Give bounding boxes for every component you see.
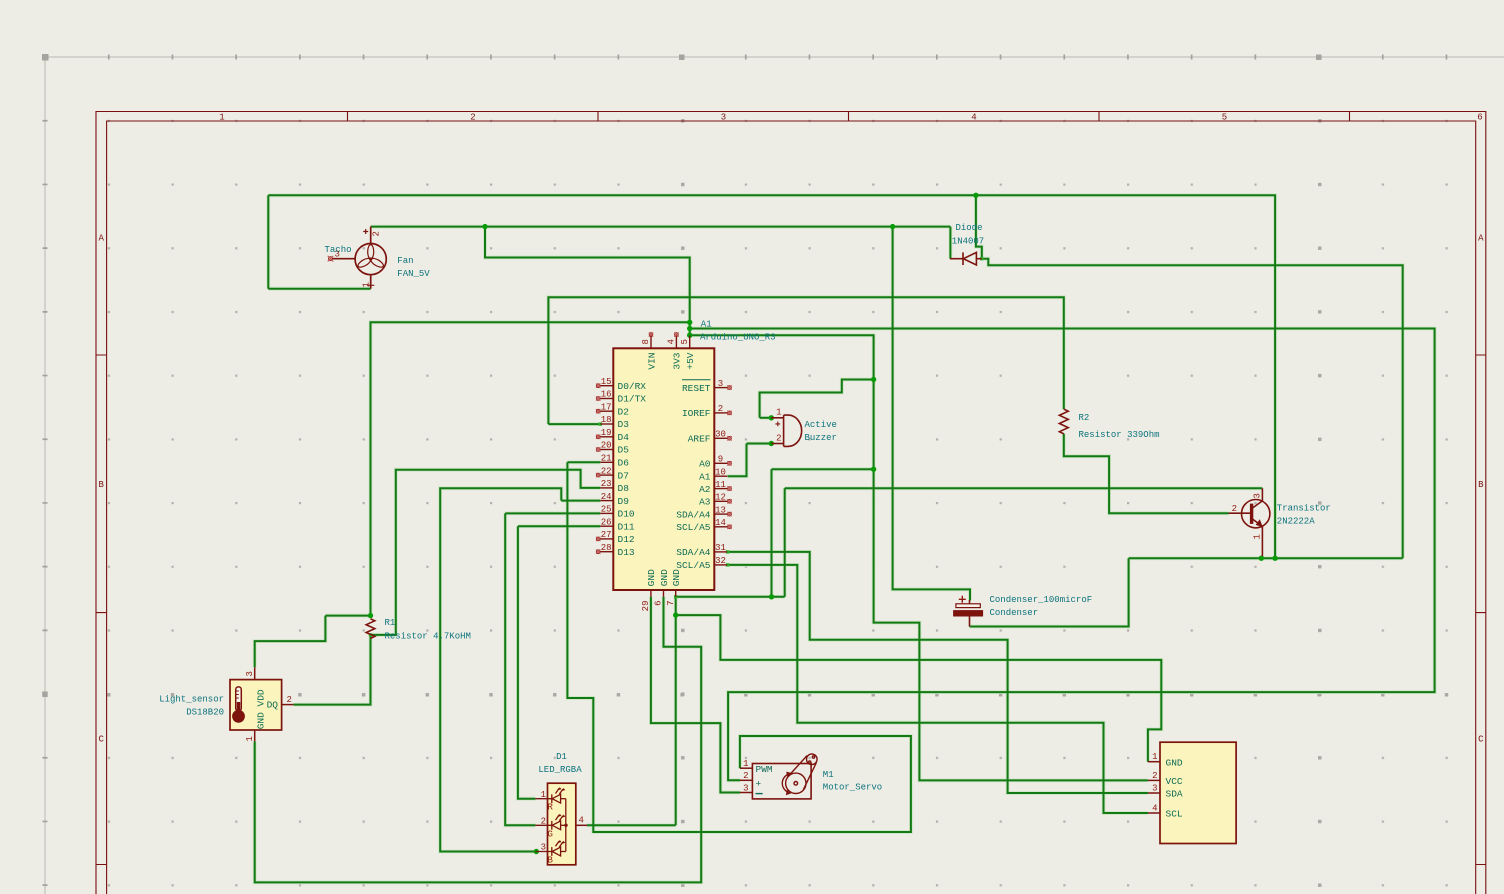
svg-text:27: 27 [601,530,612,540]
wire gnd link to value column [772,468,874,470]
wire D9 pin stub [561,500,600,502]
wire fan- bottom [268,288,370,290]
svg-text:1: 1 [1253,534,1263,539]
svg-text:13: 13 [715,505,726,515]
wire D11 to LED red [518,526,536,799]
resistor R1 [366,619,375,639]
svg-text:1: 1 [1152,752,1157,762]
svg-text:Transistor: Transistor [1277,504,1331,514]
svg-text:18: 18 [601,415,612,425]
svg-text:D9: D9 [618,496,630,507]
svg-text:SDA: SDA [1166,789,1183,800]
svg-text:+5V: +5V [685,352,696,369]
pin end squares [369,257,984,637]
svg-text:15: 15 [601,377,612,387]
diode 1N4007 D [950,252,982,265]
svg-text:+: + [756,779,762,790]
svg-text:Arduino_UNO_R3: Arduino_UNO_R3 [700,333,776,343]
unconnected pin markers [596,332,732,554]
svg-text:A: A [1478,234,1484,244]
svg-text:D8: D8 [618,483,630,494]
svg-text:2: 2 [1152,771,1157,781]
wire gnd link drop [771,469,773,597]
wire SCL/A5 pin32 to connector SCL [728,565,1148,813]
wire R1 bottom to D8 pin [371,470,601,635]
fan FAN_5V symbol [333,227,387,289]
svg-text:19: 19 [601,428,612,438]
svg-text:7: 7 [666,601,676,606]
svg-text:D0/RX: D0/RX [618,381,647,392]
servo horn [782,754,817,794]
svg-text:30: 30 [715,430,726,440]
svg-text:D1: D1 [556,752,567,762]
wire buzzer pin1 stub [760,417,772,419]
wire collector net riser [784,488,786,597]
svg-text:D5: D5 [618,445,630,456]
wire fan+ to diode cathode column [371,226,951,228]
svg-text:Diode: Diode [955,223,982,233]
svg-text:IOREF: IOREF [682,408,711,419]
wire buzzer pin1 loop to column [760,380,874,418]
svg-text:6: 6 [1477,113,1482,123]
svg-text:26: 26 [601,517,612,527]
svg-text:32: 32 [715,556,726,566]
svg-text:3: 3 [718,379,723,389]
LED_RGBA D1 [548,783,576,865]
svg-text:VDD: VDD [256,689,267,706]
svg-text:Fan: Fan [397,256,413,266]
capacitor Condenser_100microF [969,600,971,604]
wire D10 pin stub [505,512,600,514]
wire junction column to A1 +5V stack [485,227,690,336]
svg-text:A1: A1 [701,320,712,330]
wire value net to connector VCC [690,335,1148,780]
svg-text:D12: D12 [618,534,635,545]
wire SDA/A4 pin31 to connector SDA [728,552,1148,793]
svg-text:DS18B20: DS18B20 [186,708,224,718]
svg-text:25: 25 [601,505,612,515]
wire diode top jog [976,195,982,258]
svg-text:14: 14 [715,518,726,528]
svg-text:16: 16 [601,390,612,400]
fan blades [357,245,385,269]
svg-text:GND: GND [671,569,682,586]
svg-text:GND: GND [646,569,657,586]
svg-text:29: 29 [641,601,651,612]
svg-text:5: 5 [1222,113,1227,123]
svg-text:2: 2 [541,817,546,827]
svg-text:D10: D10 [618,509,635,520]
svg-text:4: 4 [667,339,677,344]
svg-text:1N4007: 1N4007 [952,237,984,247]
wire collector net rail [785,487,1263,489]
svg-text:3: 3 [743,783,748,793]
Arduino top pins VIN 3V3 +5V [651,336,690,349]
svg-text:RESET: RESET [682,383,711,394]
svg-text:LED_RGBA: LED_RGBA [538,765,582,775]
svg-text:31: 31 [715,543,726,553]
svg-text:Tacho: Tacho [325,245,352,255]
svg-text:D4: D4 [618,432,630,443]
svg-text:D2: D2 [618,406,630,417]
wire D6 pin stub [567,461,600,463]
wire D10 to LED green [505,513,535,825]
wire top rail y195 and right drop [268,195,1275,558]
wire diode anode out to far right drop [982,259,1403,559]
svg-text:4: 4 [1152,804,1157,814]
svg-text:2: 2 [287,695,292,705]
svg-text:2: 2 [776,434,781,444]
RESET overline [682,379,711,381]
wire R1 top stub left [325,615,370,617]
wire pin29 gnd to motor minus [651,597,740,793]
wire emitter rail y558 [1129,557,1403,559]
svg-text:10: 10 [715,467,726,477]
svg-text:2: 2 [470,113,475,123]
svg-text:12: 12 [715,493,726,503]
svg-text:G: G [548,829,553,839]
svg-text:PWM: PWM [756,764,773,775]
svg-text:3: 3 [1152,784,1157,794]
svg-text:11: 11 [715,480,726,490]
svg-text:Motor_Servo: Motor_Servo [823,783,882,793]
svg-text:A: A [98,234,104,244]
wire D6 to servo PWM loop [567,462,911,832]
svg-text:23: 23 [601,479,612,489]
wire D3 pin stub [548,423,600,425]
wire buzzer pin2 stub [747,443,772,445]
LED element G [535,815,565,830]
svg-text:SCL: SCL [1166,809,1183,820]
light sensor DS18B20 [230,680,282,730]
svg-text:Resistor 4.7KoHM: Resistor 4.7KoHM [385,632,471,642]
fan pin3 unconnected mark [329,257,333,261]
svg-text:A2: A2 [699,484,711,495]
svg-text:2: 2 [718,404,723,414]
svg-text:R2: R2 [1079,413,1090,423]
wire buzzer pin2 to A1 pin [728,444,747,477]
wire pin7 column to LED pin4 [587,597,676,826]
svg-text:1: 1 [541,790,546,800]
svg-text:24: 24 [601,492,612,502]
svg-text:17: 17 [601,402,612,412]
svg-text:1: 1 [743,759,748,769]
I2C connector J [1160,742,1236,843]
svg-text:FAN_5V: FAN_5V [397,269,430,279]
svg-text:2: 2 [372,231,382,236]
wire capacitor bottom link [970,558,1129,626]
wire GND bottom loop to pin6 [255,597,702,883]
wire sensor DQ to R1 bottom [293,635,370,705]
svg-text:2N2222A: 2N2222A [1277,517,1315,527]
svg-text:B: B [548,856,554,866]
svg-text:D3: D3 [618,419,630,430]
sheet zone labels [98,113,1484,745]
Arduino bottom pins GND x3 [651,590,676,597]
svg-text:5: 5 [680,339,690,344]
wire halo layer [255,195,1435,882]
wire cap top feed from diode net [893,227,970,601]
transistor Q 2N2222A [1229,488,1270,556]
svg-text:R1: R1 [385,618,396,628]
wire R2 bottom to transistor base [1064,434,1229,513]
buzzer Active Buzzer [771,415,801,446]
wire fan loop left [267,195,269,288]
svg-text:C: C [98,735,104,745]
svg-text:3V3: 3V3 [672,352,683,369]
wire pin7 branch to connector GND [676,615,1162,762]
svg-text:SDA/A4: SDA/A4 [676,547,711,558]
svg-text:3: 3 [1253,493,1263,498]
svg-text:1: 1 [776,408,781,418]
svg-text:Resistor 339Ohm: Resistor 339Ohm [1079,430,1160,440]
svg-text:2: 2 [1232,504,1237,514]
svg-text:D7: D7 [618,470,629,481]
wire D3 to R2 top [548,297,1063,424]
svg-text:3: 3 [721,113,726,123]
svg-text:GND: GND [659,569,670,586]
svg-text:4: 4 [579,816,584,826]
svg-text:SDA/A4: SDA/A4 [676,509,711,520]
wire D11 pin stub [518,525,600,527]
svg-text:A3: A3 [699,497,711,508]
LED element R [535,788,565,803]
svg-text:D1/TX: D1/TX [618,394,647,405]
svg-text:Active: Active [805,420,837,430]
svg-text:8: 8 [641,339,651,344]
svg-text:Condenser: Condenser [990,608,1039,618]
svg-text:20: 20 [601,441,612,451]
svg-text:D11: D11 [618,521,635,532]
svg-text:A1: A1 [699,471,711,482]
svg-text:2: 2 [743,771,748,781]
svg-text:A0: A0 [699,459,711,470]
svg-text:Buzzer: Buzzer [805,433,837,443]
svg-text:9: 9 [718,455,723,465]
Arduino right pins [714,388,727,565]
svg-text:3: 3 [541,843,546,853]
svg-text:B: B [1478,480,1484,490]
svg-text:AREF: AREF [688,434,711,445]
svg-text:Condenser_100microF: Condenser_100microF [990,595,1093,605]
svg-text:6: 6 [654,601,664,606]
svg-text:21: 21 [601,454,612,464]
wire D9 to LED blue [440,488,561,851]
svg-text:28: 28 [601,543,612,553]
svg-text:SCL/A5: SCL/A5 [676,522,711,533]
svg-text:M1: M1 [823,770,834,780]
wire diode cathode drop [949,227,951,259]
svg-text:DQ: DQ [267,700,279,711]
LED element B [535,841,565,856]
wire emitter tip [1261,556,1263,558]
svg-text:C: C [1478,735,1484,745]
Arduino left pins D0-D13 [600,386,613,552]
thermometer icon [236,687,242,711]
svg-text:GND: GND [1166,757,1183,768]
svg-text:4: 4 [971,113,976,123]
motor servo M1 [752,764,811,799]
svg-text:D13: D13 [618,547,635,558]
svg-text:VIN: VIN [646,353,657,370]
svg-text:22: 22 [601,466,612,476]
fan pin marks [363,229,368,234]
Arduino UNO R3 symbol A1 [613,348,714,590]
wire A1 net left to R1 top [371,322,690,615]
svg-text:1: 1 [219,113,224,123]
wire pin7 gnd rail [676,596,785,598]
resistor R2 [1059,409,1068,434]
svg-text:D6: D6 [618,458,630,469]
svg-text:VCC: VCC [1166,776,1183,787]
svg-text:3: 3 [245,671,255,676]
svg-text:R: R [548,803,554,813]
svg-text:B: B [98,480,104,490]
svg-text:GND: GND [256,712,267,729]
svg-text:1: 1 [245,736,255,741]
wire +5V to motor plus [690,329,1435,781]
wire to sensor VDD [255,616,326,668]
svg-text:Light_sensor: Light_sensor [159,695,224,705]
